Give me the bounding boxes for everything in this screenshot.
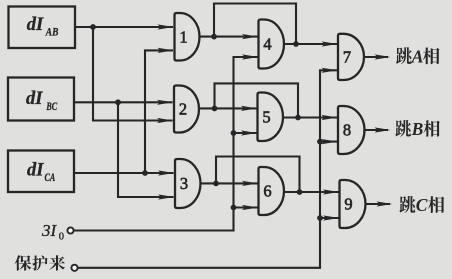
svg-text:dI: dI [26,89,43,109]
svg-text:4: 4 [263,35,271,54]
feedback wire gate 5 output to gate 2 output node [215,83,299,117]
input block dI_CA [8,151,74,193]
wire branch to gate 6 input 2 [234,206,258,208]
wire gate 7 output (trip phase A) [364,56,388,58]
svg-text:BC: BC [46,101,58,113]
svg-text:B: B [411,119,424,139]
node on dI_AB output [90,24,96,30]
feedback wire gate 6 output to gate 3 output node [216,157,300,193]
svg-text:dI: dI [27,15,44,35]
wire dI_AB output to gate 1 input 1 [75,26,173,28]
wire dI_AB branch to gate 2 input 2 [93,27,173,121]
wire branch to gate 8 input 2 [320,141,337,143]
wire gate 8 output (trip phase B) [363,129,388,131]
AND gate 3 [175,159,201,208]
node BaoHuLai branch to gate 9 [317,215,323,221]
svg-text:8: 8 [343,121,351,140]
input block dI_AB [9,7,76,49]
svg-text:dI: dI [27,161,44,181]
svg-text:CA: CA [45,172,56,184]
svg-text:0: 0 [59,232,64,243]
label trip phase B [395,119,439,139]
node gate 3 output [213,181,219,187]
AND gate 2 [174,86,199,133]
terminal BaoHuLai [71,265,77,271]
wire dI_BC output to gate 2 input 1 [74,101,173,103]
svg-text:3I: 3I [41,221,58,240]
node gate 6 output [297,189,303,195]
node 3I0 branch to gate 6 [231,205,237,211]
AND gate 1 [175,13,200,61]
AND gate 6 [259,167,285,215]
svg-text:A: A [411,47,424,67]
node on dI_CA output [142,170,148,176]
wire gate 9 output (trip phase C) [365,203,390,205]
node gate 5 output [295,115,301,121]
label dI_CA [27,161,56,185]
label dI_AB [27,15,59,39]
wire gate 5 output to gate 8 input 1 [283,116,337,118]
AND gate 4 [259,20,284,69]
wire branch to gate 9 input 2 [320,217,339,219]
wire dI_BC branch to gate 3 input 2 [118,102,174,197]
terminal 3I0 [67,227,73,233]
svg-text:3: 3 [180,174,188,193]
AND gate 7 [338,34,364,80]
wire dI_CA output to gate 3 input 1 [74,172,174,174]
label trip phase A [396,47,439,67]
wire gate 2 output to gate 5 input 1 [199,107,257,109]
svg-text:2: 2 [179,100,187,119]
svg-text:5: 5 [262,107,270,126]
wire gate 4 output to gate 7 input 1 [284,43,337,45]
label BaoHuLai (from protection) [15,255,65,270]
svg-text:1: 1 [179,27,187,46]
wire gate 6 output to gate 9 input 1 [284,191,339,193]
node on dI_BC output [115,99,121,105]
label dI_BC [26,89,57,113]
wire BaoHuLai to gates 7,8,9 second inputs [78,70,337,267]
input block dI_BC [8,78,74,121]
wire 3I0 to gates 4,5,6 second inputs [74,57,258,231]
wire dI_CA branch to gate 1 input 2 [145,50,173,173]
node gate 4 output [293,41,299,47]
svg-text:6: 6 [263,182,271,201]
wire gate 3 output to gate 6 input 1 [201,182,258,184]
node gate 1 output [211,34,217,40]
svg-text:7: 7 [343,48,351,67]
label trip phase C [399,195,444,215]
node gate 2 output [212,106,218,112]
svg-text:C: C [416,195,428,215]
node BaoHuLai branch to gate 8 [317,139,323,145]
AND gate 5 [258,93,283,142]
svg-text:9: 9 [344,195,352,214]
AND gate 8 [338,106,365,154]
node 3I0 branch to gate 5 [231,130,237,136]
wire branch to gate 5 input 2 [234,132,257,134]
svg-text:AB: AB [45,27,59,39]
wire gate 1 output to gate 4 input 1 [200,36,258,38]
feedback wire gate 4 output to gate 1 output node [214,4,296,45]
label 3I0 [41,221,64,243]
AND gate 9 [340,180,366,228]
